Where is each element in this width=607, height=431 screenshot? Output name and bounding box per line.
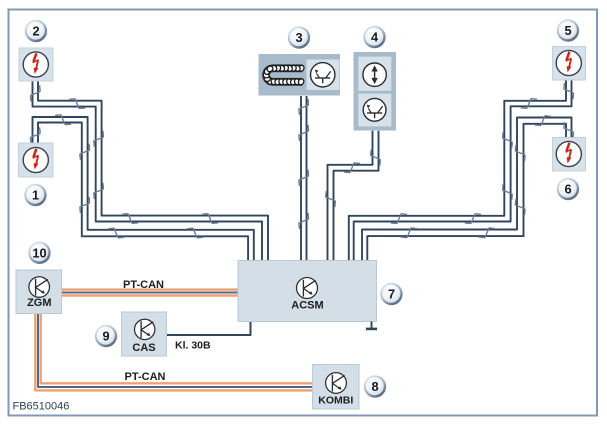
svg-text:PT-CAN: PT-CAN	[123, 279, 164, 291]
svg-text:4: 4	[371, 30, 379, 45]
svg-text:1: 1	[32, 188, 39, 203]
svg-text:10: 10	[32, 245, 46, 260]
index ball 6	[557, 178, 579, 200]
crash sensor 6	[553, 138, 586, 172]
wire pair: belt tensioner 3 to ACSM	[299, 96, 309, 261]
sensor module 4	[354, 52, 397, 131]
index ball 7	[380, 283, 402, 305]
index ball 10	[28, 242, 50, 264]
wire pair: sensor 2 to ACSM	[30, 81, 268, 261]
svg-text:7: 7	[388, 287, 395, 302]
svg-text:6: 6	[564, 182, 571, 197]
wire pair: sensor 6 to ACSM	[362, 116, 574, 261]
PT-CAN bus: ZGM to ACSM	[62, 290, 239, 296]
ground	[366, 322, 377, 331]
wire pair: sensor 1 to ACSM	[30, 115, 253, 261]
belt tensioner 3 (gas generator + sensor)	[259, 54, 341, 96]
crash sensor 2	[19, 48, 53, 81]
control unit ACSM	[238, 261, 377, 322]
wire: CAS Kl.30B to ACSM	[167, 322, 251, 336]
index ball 8	[364, 375, 386, 397]
index ball 4	[363, 26, 385, 48]
svg-text:3: 3	[295, 30, 302, 45]
svg-text:PT-CAN: PT-CAN	[125, 371, 166, 383]
wire pair: sensor 4 to ACSM	[326, 131, 381, 261]
index ball 9	[95, 325, 117, 347]
svg-text:Kl. 30B: Kl. 30B	[175, 340, 211, 352]
svg-text:2: 2	[32, 24, 39, 39]
control unit ZGM	[16, 270, 62, 314]
index ball 1	[24, 184, 46, 206]
index ball 2	[25, 20, 47, 42]
svg-text:CAS: CAS	[132, 342, 155, 354]
wire pair: sensor 5 to ACSM	[349, 80, 574, 261]
svg-text:KOMBI: KOMBI	[318, 394, 353, 406]
sensor box inside 3	[307, 60, 340, 91]
svg-text:ACSM: ACSM	[291, 300, 323, 312]
index ball 5	[557, 19, 579, 41]
PT-CAN bus: ZGM to KOMBI	[35, 314, 312, 391]
control unit CAS	[122, 312, 167, 356]
svg-text:FB6510046: FB6510046	[13, 401, 70, 413]
svg-text:ZGM: ZGM	[27, 297, 51, 309]
svg-text:5: 5	[564, 23, 571, 38]
gas generator tube	[262, 64, 305, 85]
index ball 3	[288, 26, 310, 48]
svg-text:8: 8	[371, 379, 378, 394]
crash sensor 5	[553, 47, 586, 81]
svg-text:9: 9	[102, 329, 109, 344]
control unit KOMBI	[313, 365, 360, 410]
crash sensor 1	[19, 143, 54, 177]
